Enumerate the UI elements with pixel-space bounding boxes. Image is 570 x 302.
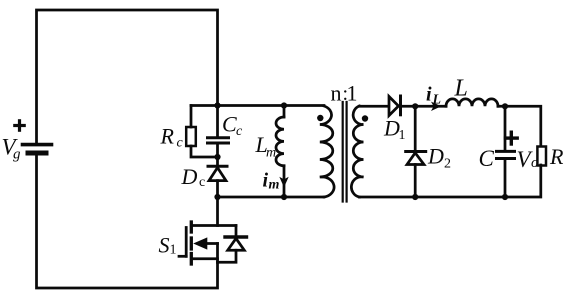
node junction at (505,197): [502, 194, 508, 200]
transformer secondary winding: [351, 106, 363, 197]
arrow iL (current right): [431, 102, 441, 111]
label + (battery polarity): [15, 121, 24, 130]
wire L to R corner: [498, 106, 541, 146]
wire Rc branch lower: [191, 146, 218, 157]
battery Vg plates: [23, 143, 52, 147]
svg-text:L: L: [454, 76, 468, 102]
wire bottom rail: battery to MOSFET source: [37, 153, 218, 288]
inductor Lm coil: [276, 117, 284, 166]
svg-text:c: c: [236, 124, 243, 139]
svg-text:1: 1: [399, 128, 406, 143]
wire outer loop: left rail, top rail, right vertical down to Cc: [37, 10, 218, 144]
label Cc: [222, 112, 243, 140]
node junction at (217.5,105.5): [214, 102, 220, 108]
wire Lm bottom stub: [283, 166, 286, 197]
label + (output polarity): [506, 132, 518, 144]
label n:1: [331, 81, 358, 106]
inductor L coil: [446, 99, 498, 106]
svg-text:n: n: [331, 81, 342, 106]
wire mid bottom rail to primary: [218, 196, 325, 199]
node junction at (415.2,197): [412, 194, 418, 200]
label Rc: [160, 124, 184, 151]
node junction at (217.5,157): [214, 154, 220, 160]
wire Lm top stub: [283, 106, 286, 118]
label S1: [159, 233, 177, 258]
svg-text:S: S: [159, 233, 170, 258]
svg-text:m: m: [266, 146, 276, 161]
wire D1 to L with node: [401, 105, 447, 108]
label im: [263, 170, 280, 193]
svg-text:D: D: [427, 144, 444, 169]
svg-text:2: 2: [444, 157, 451, 172]
svg-text:L: L: [432, 93, 442, 108]
body diode of S1: [218, 226, 247, 263]
svg-text:c: c: [177, 136, 184, 151]
wire clamp top node line: [191, 104, 324, 107]
diode D2: [406, 152, 426, 165]
label iL: [426, 84, 441, 108]
node junction at (284,197): [281, 194, 287, 200]
resistor Rc: [186, 127, 196, 146]
svg-text:C: C: [479, 146, 495, 171]
label Vg: [2, 135, 22, 163]
transistor S1 MOSFET: [179, 222, 236, 264]
label L: [454, 76, 468, 102]
label D2: [427, 144, 451, 172]
wire C branch upper: [504, 106, 507, 151]
label C: [479, 146, 495, 171]
diode D1: [389, 96, 401, 116]
wire MOSFET drain stub: [216, 197, 219, 226]
svg-text:R: R: [160, 124, 175, 149]
node junction at (415.2,106.3): [412, 103, 418, 109]
node junction at (284,105.5): [281, 102, 287, 108]
resistor R: [537, 147, 546, 166]
label Vo: [517, 147, 540, 172]
svg-text:m: m: [269, 178, 280, 193]
node junction at (217.5,197): [214, 194, 220, 200]
wire C branch lower: [504, 159, 507, 198]
svg-text:D: D: [383, 116, 400, 141]
node junction at (505,106.3): [502, 103, 508, 109]
svg-text:1: 1: [170, 243, 177, 258]
svg-text:i: i: [426, 84, 432, 106]
label D1: [383, 116, 406, 144]
svg-text:g: g: [13, 147, 21, 163]
transformer core: [343, 102, 347, 202]
wire Rc branch upper: [190, 106, 193, 128]
capacitor Cc: [208, 138, 229, 143]
diode Dc: [208, 166, 227, 180]
transformer primary winding: [320, 106, 334, 197]
label Lm: [255, 132, 277, 161]
svg-text:D: D: [181, 164, 198, 189]
label R: [549, 144, 564, 169]
svg-text:C: C: [222, 112, 237, 137]
wire D2 branch upper: [414, 106, 417, 151]
arrow im (current down): [279, 177, 288, 188]
label Dc: [181, 164, 206, 190]
svg-text:c: c: [199, 175, 205, 190]
svg-text:1: 1: [347, 81, 358, 106]
wire output bottom rail: [359, 165, 541, 197]
wire Cc bottom to node: [216, 143, 219, 166]
wire D2 anode to bottom rail: [414, 165, 417, 198]
transformer primary dot: [317, 115, 323, 121]
capacitor C: [497, 151, 515, 158]
transformer secondary dot: [362, 115, 368, 121]
wire Dc anode to node: [216, 181, 219, 197]
wire secondary top to D1: [359, 105, 389, 108]
svg-text:R: R: [549, 144, 564, 169]
